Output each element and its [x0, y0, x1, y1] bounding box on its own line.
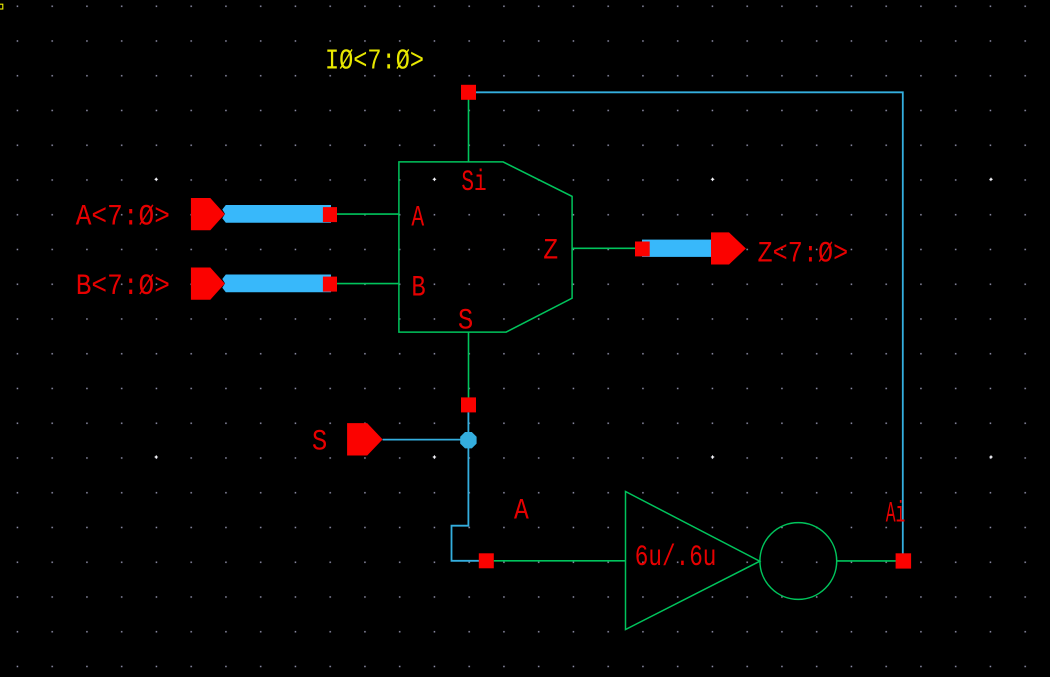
- svg-text:Si: Si: [461, 166, 486, 200]
- inverter U1 output bubble: [760, 523, 837, 600]
- origin marker (yellow box, partially off-canvas): [0, 4, 3, 9]
- svg-text:S: S: [312, 425, 327, 459]
- wire (green) square A to inverter input: [494, 560, 626, 562]
- svg-text:B<7:Ø>: B<7:Ø>: [76, 270, 170, 304]
- junction square net A: [479, 553, 494, 568]
- output pin Z arrow: [711, 232, 746, 264]
- output Z bus-end square: [635, 242, 650, 257]
- wire (green) from I0 junction down to mux Si pin: [468, 92, 470, 162]
- wire (blue) square down to octagon junction: [467, 412, 469, 440]
- wire (blue) S pin to junction: [383, 439, 469, 441]
- junction dot (octagon): [460, 432, 476, 448]
- junction square net Ai: [896, 553, 912, 568]
- wire (green) mux Z to output square: [572, 247, 643, 249]
- svg-text:A<7:Ø>: A<7:Ø>: [76, 201, 170, 235]
- svg-text:Z<7:Ø>: Z<7:Ø>: [758, 238, 849, 272]
- output pin Z bus bar (cyan): [642, 240, 711, 257]
- svg-text:A: A: [411, 202, 424, 236]
- svg-text:6u/.6u: 6u/.6u: [635, 541, 717, 575]
- junction square S: [461, 397, 476, 412]
- svg-text:B: B: [411, 271, 425, 305]
- wire (blue) octagon down, jog left, to square A: [452, 448, 480, 561]
- input pin B arrow: [191, 268, 225, 300]
- input pin A bus-end square: [323, 207, 337, 222]
- input pin A bus bar (cyan): [222, 205, 331, 223]
- input pin A arrow: [191, 198, 225, 230]
- wire (green) A to mux: [337, 213, 399, 215]
- input pin S arrow: [347, 423, 383, 455]
- junction square I0/Si: [461, 85, 476, 100]
- svg-text:IØ<7:Ø>: IØ<7:Ø>: [325, 44, 424, 77]
- svg-text:Z: Z: [543, 234, 558, 268]
- inverter U1 triangle: [626, 492, 760, 630]
- input pin B bus-end square: [323, 277, 337, 292]
- svg-text:Ai: Ai: [886, 497, 906, 531]
- input pin B bus bar (cyan): [222, 275, 331, 293]
- wire (green) B to mux: [337, 283, 399, 285]
- svg-text:A: A: [514, 495, 529, 529]
- svg-text:S: S: [458, 304, 473, 338]
- wire (green) bubble to square Ai: [837, 560, 903, 562]
- mux U0 body: [399, 162, 572, 332]
- wire (green) mux S pin down to square: [468, 332, 470, 400]
- wire (blue) net I0: top horizontal + right vertical down to Ai square: [469, 92, 903, 561]
- major grid dot (155.8,177.8): [154, 177, 993, 459]
